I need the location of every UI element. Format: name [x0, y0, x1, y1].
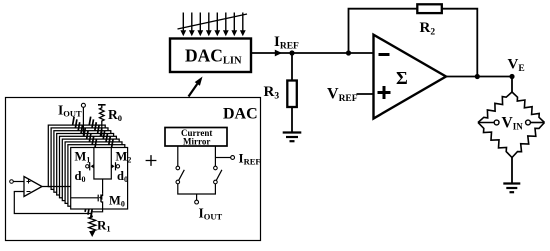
input terminal to DAC op-amp [10, 180, 24, 184]
wire: node down to R3 [291, 53, 293, 81]
wire: DAC op-amp output to cell gate bus [42, 186, 71, 188]
VIN terminal left wire and circle [478, 122, 494, 124]
resistor R3 [264, 81, 297, 108]
node: feedback tap junction [346, 50, 351, 55]
ground below bridge [503, 184, 520, 193]
DAC cell card stack (repeated unit cells) [48, 117, 105, 196]
ground below R3 [283, 133, 302, 142]
node: R3 tap junction [289, 50, 294, 55]
DAC_LIN block [170, 39, 251, 73]
wire: op-amp output to VE [446, 76, 512, 78]
wire: branch to IREF terminal [215, 157, 230, 159]
bus slash [178, 14, 248, 29]
wire: mirror left leg [177, 146, 179, 166]
plus sign between cell stack and current mirror [146, 155, 157, 166]
resistor R1 [89, 216, 96, 232]
bridge resistor bottom-left [478, 123, 512, 158]
svg-text:DAC: DAC [223, 106, 258, 123]
wire: bridge bottom to ground [511, 158, 513, 184]
transistor M0 [71, 193, 103, 218]
svg-text:Mirror: Mirror [183, 137, 210, 147]
current mirror block [165, 128, 227, 147]
wire: M1/M2 source-drain rails in front card [94, 148, 111, 194]
DAC detail box [6, 98, 261, 241]
wire: mirror right leg [214, 146, 216, 166]
transistor M2 [111, 162, 119, 170]
terminal IREF of mirror [231, 156, 235, 160]
transistor M1 [86, 162, 94, 170]
wire: VREF to non-inverting input [357, 93, 374, 95]
arrow from DAC box to DAC_LIN [189, 77, 203, 97]
front unit cell card [71, 139, 128, 218]
svg-text:Σ: Σ [396, 68, 408, 88]
op-amp U1 summing amplifier [374, 35, 447, 119]
resistor R2 [417, 4, 442, 37]
arrow below R1 [89, 231, 95, 237]
VIN terminal right wire and circle [530, 122, 544, 124]
wire: feedback from R1 node to op-amp inverting input [14, 192, 92, 214]
wire: R3 to ground [291, 107, 293, 132]
switch d0 left [176, 166, 184, 184]
wire: DAC_LIN output to op-amp inverting input [251, 52, 374, 54]
bridge resistor top-right [512, 92, 545, 123]
terminal IOUT of mirror [195, 200, 199, 204]
bridge resistor bottom-right [512, 123, 545, 158]
current direction arrowhead on IREF wire [275, 50, 282, 57]
wire: feedback loop [349, 9, 478, 77]
terminal IOUT top of stack [81, 103, 85, 136]
switch d0 right [214, 166, 222, 184]
node VE junction [509, 74, 514, 79]
resistor R0 [98, 105, 106, 137]
op-amp A in DAC cell [24, 177, 42, 197]
bridge resistor top-left [478, 92, 512, 123]
wire: VE down to bridge top [511, 77, 513, 94]
wire: switches to output bus [178, 184, 216, 200]
digital input bus arrows into DAC_LIN [180, 13, 245, 37]
node: feedback junction at output [475, 74, 480, 79]
